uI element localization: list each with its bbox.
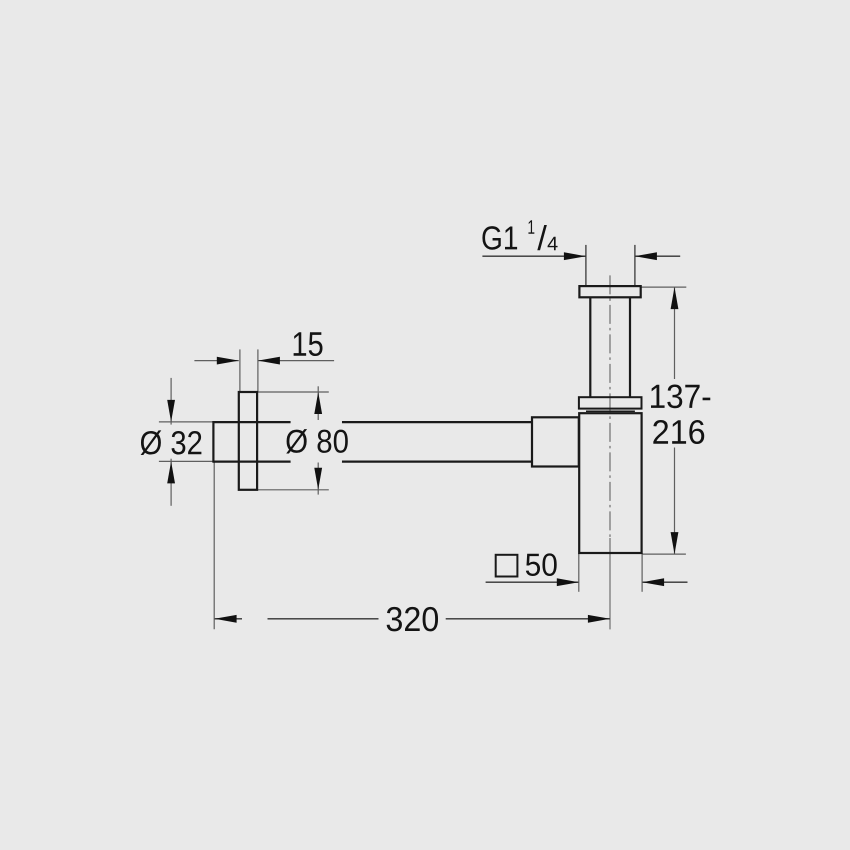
dim 137-216: lower extension line bbox=[642, 553, 686, 555]
label square50 symbol bbox=[496, 555, 518, 577]
dim square50: left line bbox=[486, 581, 579, 583]
dim square50: right line bbox=[642, 581, 687, 583]
riser pipe right edge bbox=[629, 297, 631, 397]
dim Ø32: lower extension line bbox=[159, 460, 214, 462]
dim 137-216: lower arrow bbox=[671, 532, 679, 554]
dim Ø80: lower arrow bbox=[314, 468, 322, 490]
label 50 bbox=[526, 553, 557, 576]
dim Ø80: upper arrow bbox=[314, 392, 322, 414]
dim square50: right arrow bbox=[642, 578, 664, 586]
top flange of riser bbox=[579, 286, 640, 297]
riser pipe left edge bbox=[589, 297, 591, 397]
slip joint line bbox=[586, 410, 635, 412]
dim 15: left line bbox=[194, 360, 238, 362]
label 216 bbox=[653, 420, 704, 444]
dim G1 1/4: left extension line bbox=[585, 245, 587, 285]
dim 320: left arrow bbox=[215, 615, 237, 623]
halo mask for 320 text bbox=[379, 606, 446, 632]
dim Ø32: upper line bbox=[170, 378, 172, 425]
dim 320: left extension line bbox=[213, 462, 215, 629]
dim Ø80: lower extension line bbox=[257, 489, 329, 491]
siphon body cup bbox=[579, 413, 641, 553]
dim 320: right arrow bbox=[588, 615, 610, 623]
horizontal pipe top line bbox=[213, 421, 532, 423]
dim square50: right extension line bbox=[641, 553, 643, 592]
centerline solid extension to 320 dim bbox=[609, 538, 611, 629]
halo mask for Ø80 text bbox=[291, 420, 342, 463]
label 320 bbox=[387, 607, 438, 631]
dim Ø80: vertical line bbox=[317, 386, 319, 494]
label diameter 80 bbox=[286, 429, 348, 453]
dim 320: left arrow tail stub bbox=[215, 618, 242, 620]
label G1 bbox=[482, 226, 517, 250]
dim Ø32: lower line bbox=[170, 459, 172, 506]
label G1 fraction slash bbox=[537, 225, 547, 250]
dim square50: left extension line bbox=[578, 553, 580, 592]
compression nut bbox=[579, 397, 642, 408]
label G1 subscript 4 bbox=[548, 237, 558, 250]
label G1 superscript 1 bbox=[528, 220, 534, 233]
dim 15: left arrow bbox=[217, 357, 239, 365]
wall stub pipe Ø32 left edge bbox=[212, 421, 214, 463]
dim 15: right extension line bbox=[257, 349, 259, 392]
dim 137-216: upper arrow bbox=[671, 287, 679, 309]
dim 15: right arrow bbox=[258, 357, 280, 365]
wall flange (rosette) bbox=[239, 392, 257, 490]
dim Ø32: upper arrow bbox=[167, 400, 175, 422]
centerline of riser pipe (dash-dot) bbox=[609, 275, 611, 538]
dim 15: right line bbox=[258, 360, 334, 362]
dim G1 1/4: right extension line bbox=[634, 245, 636, 285]
dim Ø32: upper extension line bbox=[159, 421, 214, 423]
dim Ø80: upper extension line bbox=[257, 391, 329, 393]
dim 137-216: upper extension line bbox=[641, 286, 687, 288]
pipe connector sleeve bbox=[532, 417, 579, 466]
dim G1 1/4: right arrow bbox=[635, 252, 657, 260]
dim Ø32: lower arrow bbox=[167, 461, 175, 483]
label diameter 32 bbox=[141, 430, 202, 455]
dim G1 1/4: left line bbox=[482, 255, 586, 257]
horizontal pipe bottom line bbox=[213, 461, 532, 463]
dim 320: main line bbox=[268, 618, 610, 620]
dim square50: left arrow bbox=[557, 578, 579, 586]
dim G1 1/4: right line bbox=[635, 255, 680, 257]
halo mask for 137-216 text bbox=[648, 379, 712, 448]
dim 137-216: vertical line bbox=[674, 287, 676, 554]
dim G1 1/4: left arrow bbox=[564, 252, 586, 260]
dim 15: left extension line bbox=[239, 349, 241, 392]
label 137- bbox=[651, 384, 710, 408]
label 15 bbox=[294, 332, 323, 356]
